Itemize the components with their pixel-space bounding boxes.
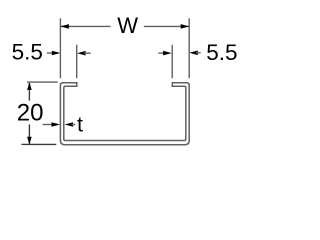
dimension 5.5 left shaft [47, 52, 59, 54]
dimension 20 lower shaft [28, 124, 30, 143]
right lip arrow shaft [158, 52, 165, 54]
dimension t inner shaft [72, 124, 76, 126]
dimension W arrow left [60, 24, 69, 29]
dimension 5.5 right shaft [196, 52, 201, 54]
svg-text:5.5: 5.5 [12, 39, 43, 64]
dimension 5.5 right arrow [189, 51, 198, 56]
channel profile (C-section) [60, 83, 189, 145]
dimension t outer arrow [52, 122, 61, 127]
dimension 20 upper shaft [28, 83, 30, 101]
dimension W line left shaft [61, 25, 111, 27]
svg-text:20: 20 [17, 100, 44, 127]
extension line left outer [59, 18, 61, 78]
left lip arrow shaft [84, 52, 91, 54]
extension line left lip [76, 45, 78, 78]
dimension t inner arrow [65, 122, 74, 127]
dimension t outer shaft [43, 124, 58, 126]
dimension W arrow right [181, 24, 190, 29]
dimension 20 down arrow [27, 137, 32, 145]
dimension 20 top extension line [27, 81, 58, 83]
svg-text:t: t [77, 113, 83, 137]
extension line right lip [171, 45, 173, 78]
svg-text:W: W [117, 13, 138, 38]
dimension 20 up arrow [27, 82, 32, 90]
dimension 20 bottom extension line [22, 143, 57, 145]
svg-text:5.5: 5.5 [206, 40, 237, 65]
left lip arrow [77, 51, 86, 56]
dimension 5.5 left arrow [52, 51, 61, 56]
right lip arrow [163, 51, 172, 56]
extension line right outer [188, 18, 190, 78]
dimension W line right shaft [144, 25, 189, 27]
